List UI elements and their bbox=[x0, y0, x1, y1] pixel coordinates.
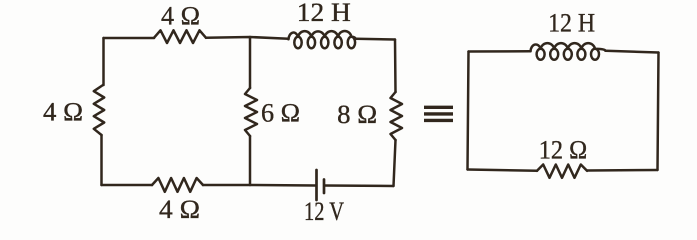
resistor R_mid 6ohm bbox=[245, 88, 257, 136]
wire top middle bbox=[206, 37, 289, 39]
svg-text:8 Ω: 8 Ω bbox=[337, 100, 377, 129]
wire right vertical top segment bbox=[394, 40, 397, 93]
battery V1 long plate bbox=[315, 170, 318, 200]
svg-text:6 Ω: 6 Ω bbox=[261, 99, 300, 128]
svg-text:4 Ω: 4 Ω bbox=[161, 2, 200, 31]
resistor R_left 4ohm bbox=[94, 85, 104, 135]
resistor R_botleft 4ohm bbox=[152, 178, 203, 192]
wire right-circuit left vertical bbox=[468, 52, 469, 170]
resistor R_right 8ohm bbox=[391, 92, 403, 140]
svg-text:12 H: 12 H bbox=[548, 9, 595, 38]
equivalence symbol bbox=[424, 107, 453, 120]
inductor L1 12H bbox=[289, 31, 356, 48]
wire top-left horizontal bbox=[104, 37, 155, 40]
resistor R2 12ohm bbox=[537, 165, 587, 178]
svg-text:4 Ω: 4 Ω bbox=[159, 195, 200, 224]
wire left vertical bottom segment bbox=[100, 135, 103, 185]
resistor R_topleft 4ohm bbox=[154, 30, 206, 43]
svg-text:12 H: 12 H bbox=[297, 0, 351, 27]
wire bottom-left horizontal bbox=[102, 184, 153, 187]
svg-text:4 Ω: 4 Ω bbox=[43, 97, 83, 126]
svg-text:12 Ω: 12 Ω bbox=[539, 136, 588, 165]
wire right vertical bottom segment bbox=[394, 140, 396, 186]
wire middle vertical bottom stub bbox=[249, 136, 252, 185]
battery V1 short plate bbox=[323, 180, 326, 194]
wire bottom middle bbox=[203, 184, 316, 187]
wire right-circuit top-right segment bbox=[606, 51, 659, 53]
wire right-circuit top-left segment bbox=[469, 50, 531, 53]
wire right-circuit bottom-right segment bbox=[587, 169, 658, 172]
wire left vertical top segment bbox=[102, 38, 105, 85]
inductor L2 12H bbox=[531, 43, 606, 60]
wire right-circuit right vertical bbox=[658, 53, 659, 171]
wire top-right to corner bbox=[356, 38, 396, 41]
wire middle vertical top stub bbox=[249, 37, 252, 88]
wire right-circuit bottom-left segment bbox=[468, 170, 538, 171]
wire bottom-right to corner bbox=[325, 184, 394, 187]
svg-text:12 V: 12 V bbox=[304, 197, 344, 226]
